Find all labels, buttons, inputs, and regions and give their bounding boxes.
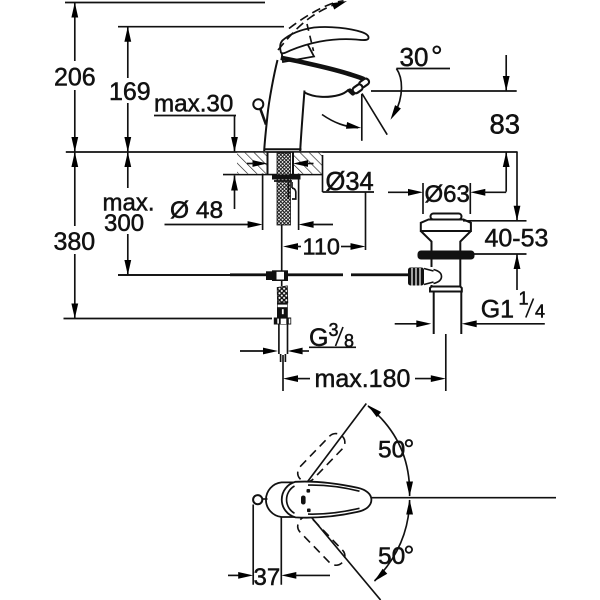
- svg-text:1: 1: [519, 289, 529, 309]
- svg-text:40-53: 40-53: [485, 225, 549, 253]
- 37 dimension: [252, 505, 254, 585]
- svg-text:30: 30: [400, 42, 429, 72]
- svg-text:4: 4: [535, 302, 545, 322]
- handle lever: [280, 27, 368, 53]
- svg-text:G1: G1: [481, 296, 514, 324]
- G3/8 dimension: [240, 320, 356, 354]
- raised handle dashed: [278, 3, 341, 51]
- drain body taper: [421, 231, 471, 251]
- pop-up knob top view: [253, 495, 262, 504]
- deck underside line: [223, 174, 323, 176]
- svg-text:max.30: max.30: [154, 91, 233, 118]
- svg-text:83: 83: [490, 109, 521, 140]
- dimension max.300: [103, 152, 233, 275]
- 50 deg arc lower: [375, 500, 410, 581]
- Ø48 dimension: [165, 174, 334, 231]
- pop-up rod knob: [253, 99, 263, 109]
- svg-text:110: 110: [303, 234, 340, 260]
- 110 dimension: [283, 192, 366, 260]
- aerator tip: [358, 77, 370, 88]
- 50 deg arc upper: [368, 406, 410, 496]
- svg-text:50: 50: [378, 543, 405, 570]
- 40-53 dimension: [463, 152, 548, 290]
- svg-text:37: 37: [254, 564, 281, 591]
- flexible hose to G3/8: [277, 286, 288, 303]
- rod clamp block: [266, 271, 272, 280]
- svg-text:50: 50: [378, 437, 405, 464]
- svg-text:Ø34: Ø34: [326, 168, 374, 196]
- dimension 169: [109, 27, 151, 152]
- rubber gasket: [418, 251, 475, 260]
- drain cap: [431, 214, 462, 220]
- G1 1/4 dimension: [395, 289, 545, 328]
- hole edges / shank tube: [267, 152, 269, 175]
- max.180 dimension: [283, 334, 446, 393]
- Ø63 dimension: [388, 181, 506, 214]
- svg-text:380: 380: [54, 228, 96, 256]
- handle markings: [307, 489, 311, 493]
- ball-rod knurled knob: [408, 268, 424, 286]
- drain tail pipe: [433, 292, 435, 335]
- extension line top (206 ref, raised handle top): [65, 2, 265, 4]
- dimension max.30: [154, 91, 238, 210]
- Ø34 label: [247, 155, 374, 196]
- axis line: [372, 497, 557, 499]
- extension line 169 ref (handle top): [118, 26, 284, 28]
- drain body below gasket: [431, 260, 433, 268]
- 30 deg dimension: [322, 42, 450, 141]
- drain flange: [421, 220, 471, 232]
- handle top view: dome: [266, 482, 297, 517]
- pop-up clip: [289, 182, 296, 199]
- base flange plate on deck: [265, 148, 302, 150]
- dashed handle lower (rotated lever): [294, 513, 349, 569]
- svg-text:169: 169: [109, 78, 151, 106]
- pop-up rod vertical: [281, 225, 283, 272]
- dimension 206: [54, 3, 96, 153]
- handle top view: lever: [282, 482, 372, 518]
- svg-text:3: 3: [329, 320, 339, 340]
- diagonal line lower: [297, 500, 381, 600]
- deck top line: [66, 151, 518, 153]
- deck hatching left: [237, 153, 268, 174]
- lever inner chamfer lines: [308, 485, 360, 491]
- svg-text:max.180: max.180: [315, 365, 411, 393]
- svg-text:300: 300: [104, 210, 144, 237]
- svg-text:Ø 48: Ø 48: [170, 197, 223, 224]
- svg-text:Ø63: Ø63: [425, 181, 470, 208]
- lever base trapezoid: [281, 37, 315, 63]
- faucet body column: [264, 60, 277, 151]
- 83 dimension: [371, 55, 520, 192]
- lever rear inner arc: [287, 486, 295, 513]
- ball socket: [424, 269, 434, 285]
- svg-text:206: 206: [54, 64, 96, 92]
- locknut black: [272, 175, 301, 180]
- G3/8 tail pipe: [278, 325, 280, 355]
- spout underside: [305, 90, 349, 97]
- spout thick top band: [281, 58, 364, 79]
- diagonal line upper: [296, 404, 366, 498]
- dashed handle upper (rotated lever): [294, 430, 349, 486]
- threaded shank texture: [277, 153, 291, 225]
- horizontal pop-up linkage rod: [118, 274, 230, 276]
- deck hatching right: [293, 153, 323, 174]
- ridge under body: [430, 287, 462, 292]
- dimension 380: [54, 152, 273, 319]
